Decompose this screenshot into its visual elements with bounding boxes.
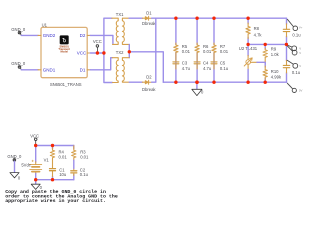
connector GND_0 (top, to GND2) — [11, 27, 26, 36]
svg-text:C5: C5 — [220, 61, 226, 66]
ground 0 (source) — [31, 180, 42, 191]
wire center tap to ground rail — [129, 52, 163, 82]
svg-text:V: V — [299, 64, 301, 68]
svg-text:Model: Model — [60, 50, 68, 54]
junction R10 bottom — [264, 81, 267, 84]
svg-text:D2: D2 — [80, 33, 86, 38]
svg-text:0.01: 0.01 — [80, 155, 89, 160]
shunt regulator U2 TL431 — [244, 44, 257, 82]
capacitor C5 — [211, 62, 217, 64]
terminal sense a — [287, 45, 296, 50]
branch R7/C5 wires — [213, 18, 215, 82]
right rail wires — [286, 18, 288, 82]
resistor R7 — [212, 45, 216, 53]
terminal Vout+ — [287, 19, 297, 30]
svg-text:4.7u: 4.7u — [182, 66, 191, 71]
svg-text:D1: D1 — [80, 67, 86, 72]
svg-text:D2: D2 — [146, 75, 152, 80]
wire top output rail — [152, 17, 287, 19]
svg-text:1.0k: 1.0k — [271, 52, 280, 57]
svg-text:D1: D1 — [146, 11, 152, 16]
transformer TX2 secondary winding — [122, 58, 129, 82]
source V1 battery — [30, 160, 42, 174]
svg-text:V+: V+ — [299, 26, 303, 30]
branch R10 wires — [264, 62, 266, 82]
wire D2 pin to TX1 primary bottom — [90, 35, 113, 43]
TI logo — [60, 35, 69, 44]
svg-text:C4: C4 — [203, 61, 209, 66]
svg-text:0.01: 0.01 — [203, 49, 212, 54]
svg-text:U1: U1 — [42, 22, 48, 27]
wire GND_0 to GND2 pin — [21, 34, 38, 36]
resistor R3 — [72, 150, 76, 158]
wire VCC pin to node — [90, 52, 104, 54]
power symbol VCC (source block) — [30, 134, 39, 146]
capacitor C3 — [173, 62, 179, 64]
branch R8 wires — [247, 18, 249, 44]
svg-text:GND_0: GND_0 — [11, 27, 26, 32]
capacitor C2 — [71, 171, 77, 173]
branch R4/C1 wires — [52, 146, 54, 180]
branch R9 wires — [264, 44, 266, 64]
svg-text:SN6501_TRANS: SN6501_TRANS — [50, 82, 82, 87]
svg-text:0.1u: 0.1u — [292, 33, 301, 38]
wire ground rail — [163, 81, 286, 83]
junction node A / R9 — [264, 43, 267, 46]
wire TX2 secondary bottom to D2 — [129, 81, 142, 83]
junction node A / R8 — [246, 43, 249, 46]
transformer TX1 secondary winding — [122, 18, 129, 44]
svg-text:R10: R10 — [271, 69, 279, 74]
wire TL431 ref to divider — [257, 61, 265, 63]
wire VCC vertical (TX1 top / TX2 bottom center rail) — [104, 18, 112, 82]
svg-text:0: 0 — [201, 90, 204, 95]
svg-text:4.99k: 4.99k — [271, 74, 282, 79]
terminal mid — [287, 60, 297, 68]
pin stub D2 — [87, 34, 90, 36]
junction TL431 anode — [246, 81, 249, 84]
wire V1 bottom — [35, 173, 37, 179]
wire source top rail — [36, 145, 74, 147]
svg-text:0.01: 0.01 — [182, 49, 191, 54]
junction secondary center tap — [128, 50, 131, 53]
svg-text:0V: 0V — [299, 89, 303, 93]
svg-text:0.01: 0.01 — [59, 155, 68, 160]
pin stub GND1 — [38, 69, 41, 71]
capacitor C4 — [194, 62, 200, 64]
resistor R5 — [174, 45, 178, 53]
svg-text:VCC: VCC — [77, 51, 87, 56]
svg-text:5Vdc: 5Vdc — [21, 162, 31, 167]
wire source bottom rail — [36, 179, 74, 181]
svg-text:R9: R9 — [271, 47, 277, 52]
junction R5 top — [174, 17, 177, 20]
pin stub GND2 — [38, 34, 41, 36]
junction VCC vertical — [102, 51, 105, 54]
junction ground stem — [195, 81, 198, 84]
wire V1 top — [35, 146, 37, 163]
wire TX1 secondary bottom to TX2 secondary top — [128, 44, 130, 57]
wire TX1 secondary top to D1 — [129, 17, 142, 19]
connector GND_0 (template) — [7, 154, 22, 161]
svg-text:TX2: TX2 — [116, 50, 124, 55]
junction C1 bottom — [51, 178, 54, 181]
resistor R4 — [50, 150, 54, 158]
svg-text:Dbreak: Dbreak — [142, 87, 156, 92]
junction node A / right rail — [285, 43, 288, 46]
capacitor Cout1 0.1u — [283, 29, 289, 31]
svg-text:appropriate wires in your circ: appropriate wires in your circuit. — [5, 198, 106, 204]
junction VCC stem — [34, 144, 37, 147]
capacitor Cout2 0.1u — [283, 65, 289, 67]
svg-text:0.1u: 0.1u — [292, 70, 301, 75]
capacitor C1 — [50, 169, 56, 171]
svg-text:0.1u: 0.1u — [80, 172, 89, 177]
wire R3-C2 link — [73, 160, 75, 168]
svg-text:V1: V1 — [44, 157, 50, 162]
junction dots overlay — [34, 17, 288, 182]
svg-text:0.1u: 0.1u — [220, 66, 229, 71]
branch R5/C3 wires — [175, 18, 177, 82]
wire D1 pin to TX2 primary top — [90, 58, 112, 70]
branch R6/C4 wires — [196, 18, 198, 82]
svg-text:GND1: GND1 — [43, 67, 56, 72]
resistor R8 — [246, 27, 250, 35]
svg-text:VCC: VCC — [93, 39, 102, 44]
junction V1 / ground — [34, 178, 37, 181]
svg-text:4.7u: 4.7u — [203, 66, 212, 71]
svg-text:Dbreak: Dbreak — [142, 21, 156, 26]
diode D1 — [142, 16, 151, 20]
diode D2 — [142, 80, 151, 84]
svg-text:4.7k: 4.7k — [254, 32, 263, 37]
pin stub D1 — [87, 69, 90, 71]
svg-text:0: 0 — [18, 175, 21, 180]
junction C4 bottom — [195, 81, 198, 84]
resistor R6 — [195, 45, 199, 53]
junction C3 bottom — [174, 81, 177, 84]
svg-text:VCC: VCC — [30, 134, 39, 139]
junction R4 top — [51, 144, 54, 147]
transformer TX1 primary winding — [112, 18, 118, 44]
svg-text:10u: 10u — [59, 172, 67, 177]
svg-text:C3: C3 — [182, 61, 188, 66]
ground 0 (template) — [10, 173, 21, 181]
junction C5 bottom — [212, 81, 215, 84]
wire GND_0 template stem — [14, 161, 16, 172]
logo caption SN6501 Transient Model — [58, 44, 70, 53]
transformer TX2 primary winding — [112, 58, 118, 83]
junction R8 top — [246, 17, 249, 20]
note text — [5, 189, 118, 204]
pin stub VCC — [87, 52, 90, 54]
svg-text:TX1: TX1 — [116, 12, 124, 17]
junction VCC symbol — [96, 51, 99, 54]
terminal Vout- — [287, 83, 296, 92]
branch R3/C2 wires — [73, 146, 75, 180]
node A sense wire — [248, 43, 286, 45]
power symbol VCC (near U1) — [93, 39, 102, 53]
terminal sense b — [287, 46, 297, 55]
IC U1 SN6501 box — [41, 22, 87, 77]
svg-text:V: V — [299, 51, 301, 55]
svg-text:0.01: 0.01 — [220, 49, 229, 54]
junction R7 top — [212, 17, 215, 20]
resistor R10 — [263, 70, 267, 78]
resistor R9 — [263, 50, 267, 58]
ground 0 (secondary) — [192, 82, 204, 95]
wire GND_0 to GND1 pin — [21, 69, 38, 71]
connector GND_0 (bottom, to GND1) — [11, 61, 26, 70]
svg-text:R8: R8 — [254, 26, 260, 31]
junction R6 top — [195, 17, 198, 20]
svg-text:GND2: GND2 — [43, 33, 56, 38]
svg-text:GND_0: GND_0 — [7, 154, 22, 159]
wire D2 cathode riser to top rail — [152, 18, 156, 82]
svg-text:GND_0: GND_0 — [11, 61, 26, 66]
